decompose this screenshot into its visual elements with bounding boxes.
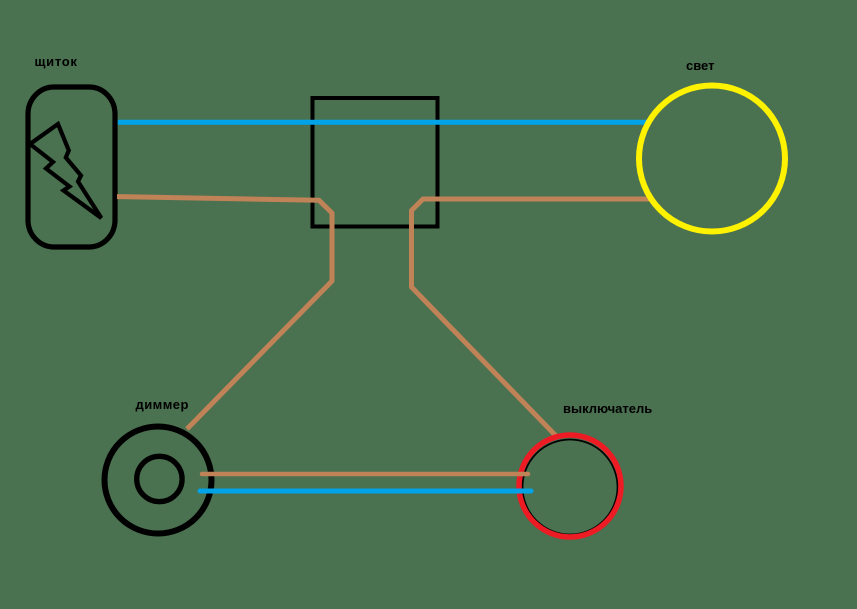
lightning bolt inside panel: [30, 124, 101, 218]
lamp (свет) yellow circle: [639, 86, 785, 232]
switch (выключатель) red circle: [519, 435, 621, 537]
dimmer inner circle: [137, 456, 182, 501]
svg-text:щиток: щиток: [35, 54, 78, 69]
wire brown: panel to junction box to dimmer: [117, 197, 332, 429]
wire brown: lamp to junction box to switch: [412, 199, 650, 438]
svg-text:свет: свет: [686, 58, 714, 73]
junction box: [313, 98, 438, 227]
svg-text:диммер: диммер: [136, 397, 189, 412]
panel (щиток) rounded box: [28, 87, 115, 247]
svg-text:выключатель: выключатель: [563, 401, 652, 416]
wire blue: panel to lamp: [118, 120, 649, 125]
wire brown: dimmer to switch: [202, 472, 528, 477]
dimmer outer circle: [105, 427, 212, 534]
wire blue: dimmer to switch: [200, 489, 531, 494]
switch thin black circle: [523, 440, 618, 535]
